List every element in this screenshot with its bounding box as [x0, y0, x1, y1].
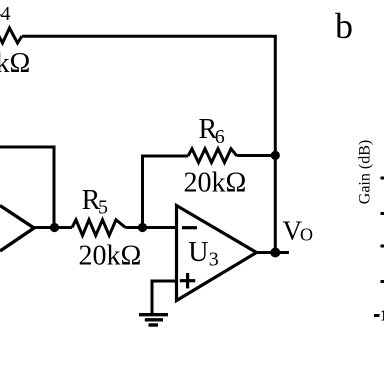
junction node output Vo	[270, 248, 280, 258]
tick label -100 (clipped)	[374, 314, 380, 317]
resistor R6	[188, 149, 237, 163]
svg-text:100: 100	[380, 308, 384, 325]
junction node R5/R6/U3	[138, 223, 147, 232]
wire top horizontal	[22, 35, 277, 38]
op-amp U3	[177, 206, 257, 301]
svg-text:20kΩ: 20kΩ	[79, 241, 142, 272]
svg-text:Gain (dB): Gain (dB)	[357, 140, 374, 204]
svg-text:20kΩ: 20kΩ	[184, 168, 247, 199]
wire U3 output	[257, 251, 290, 254]
tick label -40 (clipped)	[381, 212, 384, 215]
wire right vertical	[274, 36, 277, 252]
svg-text:20kΩ: 20kΩ	[0, 48, 30, 79]
ground	[139, 313, 168, 316]
svg-text:4: 4	[1, 3, 11, 25]
wire feedback vertical	[143, 156, 189, 228]
tick label -80 (clipped)	[381, 280, 384, 283]
junction node feedback/output	[271, 151, 280, 160]
wire U2 output	[32, 226, 72, 229]
resistor R5	[72, 220, 126, 236]
tick label -20 (clipped)	[381, 177, 384, 180]
op-amp U2 (partial)	[0, 206, 34, 252]
resistor R4	[0, 28, 22, 43]
wire U3 + input to ground	[152, 281, 177, 314]
svg-text:U: U	[188, 237, 208, 268]
svg-text:6: 6	[215, 126, 225, 148]
tick label -60 (clipped)	[381, 245, 384, 248]
U3 inverting input pin symbol	[182, 226, 197, 229]
wire left input horizontal	[0, 146, 54, 149]
svg-text:O: O	[300, 225, 313, 245]
junction node at U2 output	[50, 223, 59, 232]
svg-text:5: 5	[98, 197, 108, 219]
wire R6 to output node	[237, 154, 275, 157]
wire R5 to U3 inverting input	[126, 226, 177, 229]
svg-text:b: b	[335, 6, 353, 46]
svg-text:3: 3	[209, 249, 219, 271]
wire left input vertical	[53, 146, 56, 228]
U3 non-inverting input pin symbol	[180, 279, 196, 282]
